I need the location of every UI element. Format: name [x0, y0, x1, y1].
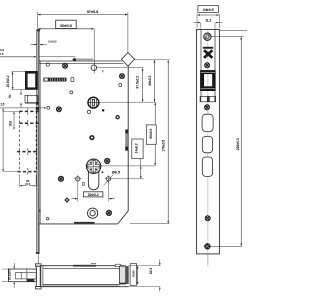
centerline of plate	[207, 30, 209, 262]
svg-text:14±0.2: 14±0.2	[135, 143, 139, 153]
dimension 19.65 boxed	[130, 264, 138, 286]
lock case plan view	[40, 263, 129, 286]
dark bar above latch	[203, 47, 213, 49]
small circle left	[70, 91, 73, 94]
hole extension line	[112, 178, 144, 180]
svg-text:-0.3: -0.3	[0, 52, 4, 56]
svg-text:20.3: 20.3	[149, 268, 153, 274]
screw dark right top	[119, 73, 125, 79]
diamond adjusting element at case corner	[121, 53, 134, 66]
dimension 26	[19, 175, 36, 187]
svg-text:6±: 6±	[8, 94, 12, 98]
dimension 11.2	[194, 18, 223, 28]
auxiliary latch front	[200, 96, 216, 101]
centerline below plate	[207, 254, 209, 266]
svg-text:60±0.5: 60±0.5	[60, 23, 72, 28]
screw dark lower left	[58, 176, 64, 182]
slot 2	[202, 136, 212, 152]
dark bar on case right edge	[125, 130, 128, 150]
screw 2	[204, 62, 210, 68]
screw 3	[204, 104, 210, 110]
svg-text:176±0.5: 176±0.5	[161, 140, 165, 152]
rounded square left	[71, 78, 74, 82]
hub extension line	[99, 101, 155, 103]
dimension 226±0.3	[236, 37, 241, 246]
faceplate (main side view)	[36, 30, 40, 254]
slot 1	[202, 114, 213, 131]
left vertical dimension	[2, 108, 4, 171]
dimension 10.2±0.5	[2, 263, 14, 288]
dimension 2.5±0.5 faceplate thickness	[31, 40, 58, 45]
faceplate front outline	[197, 29, 220, 254]
small circle below hub	[87, 110, 90, 113]
bottom mounting screw	[204, 243, 210, 249]
latch bolt front dark frame	[200, 70, 216, 91]
dimension 20±0.3 at left edge	[0, 48, 76, 57]
latch bolt head front (bowtie)	[204, 50, 212, 58]
dimension 60±0.3 boxed	[146, 103, 156, 166]
svg-text:19.65: 19.65	[131, 270, 135, 277]
extension line at plate top right	[220, 30, 247, 32]
svg-text:24±0.5: 24±0.5	[203, 8, 214, 12]
dimension 97±0.8	[37, 9, 128, 53]
screw dark mid left	[56, 106, 62, 112]
hidden mounting plate (dashed)	[17, 109, 40, 175]
label Ø6.5 with leader	[104, 170, 121, 186]
tick mark above hub	[102, 70, 104, 72]
small diamond	[65, 198, 69, 202]
dimension 20.3	[129, 260, 161, 292]
svg-text:97±0.8: 97±0.8	[87, 9, 99, 14]
dimension 20.6±0.2 latch height	[6, 72, 26, 90]
crosshair hole right Ø6.5	[105, 175, 113, 183]
circle top middle	[91, 65, 97, 71]
latch bolt plan view	[9, 269, 37, 282]
svg-text:11.2: 11.2	[205, 18, 211, 22]
svg-text:19.8: 19.8	[9, 121, 13, 127]
circle near faceplate	[47, 106, 50, 109]
dark dot	[102, 109, 105, 112]
svg-text:20.6±0.2: 20.6±0.2	[6, 75, 10, 87]
small circle bottom	[47, 218, 49, 220]
slot 3	[202, 157, 212, 176]
svg-text:37.5±0.2: 37.5±0.2	[135, 76, 139, 89]
small square	[83, 183, 85, 186]
svg-text:2.5±0.5: 2.5±0.5	[48, 40, 57, 44]
deadlocking pin bar	[43, 78, 66, 82]
dark dot near cylinder	[102, 171, 104, 173]
dimension 19.8	[9, 112, 14, 130]
latch bolt (main view)	[25, 71, 38, 90]
ext line case top	[135, 59, 170, 61]
svg-text:60±0.3: 60±0.3	[149, 129, 153, 139]
faceplate cross-section	[35, 264, 41, 289]
label 1.5 with leader	[0, 102, 46, 108]
dimension 176±0.5	[161, 60, 168, 223]
leader to 226 dim bottom	[211, 245, 242, 247]
svg-text:Ø6.5: Ø6.5	[112, 170, 121, 175]
screw dark bottom	[106, 210, 112, 216]
mid plate screw	[205, 215, 211, 221]
rounded square right	[119, 84, 122, 87]
screw dark top	[62, 63, 68, 69]
ring double circle	[88, 208, 98, 218]
circle center	[90, 136, 94, 140]
dimension 32±0.2 boxed	[72, 182, 115, 202]
dimension 14±0.2 boxed	[132, 139, 143, 178]
cylinder extension line	[101, 165, 156, 167]
screw dark near cylinder	[104, 158, 110, 164]
svg-text:226±0.3: 226±0.3	[236, 138, 240, 150]
extension lines for dashed plate	[3, 110, 20, 112]
centerline joining views	[37, 254, 39, 264]
svg-text:46±0.3: 46±0.3	[148, 76, 152, 86]
svg-text:1.5: 1.5	[0, 102, 4, 106]
case bottom extension line	[130, 223, 170, 225]
euro profile cylinder	[86, 159, 100, 190]
dark dot right	[116, 116, 119, 119]
dimension 37.5±0.2	[135, 68, 142, 102]
dimension 24±0.5 boxed	[197, 6, 219, 28]
auxiliary latch (main view)	[25, 95, 39, 110]
svg-text:10.2±0.5: 10.2±0.5	[7, 268, 11, 280]
svg-text:32±0.2: 32±0.2	[88, 193, 99, 197]
dimension 6 aux bolt	[8, 90, 21, 108]
dimension 46±0.3	[148, 60, 155, 102]
dimension 60±0.5 boxed	[38, 20, 94, 73]
lock case outline	[39, 61, 128, 224]
circle small top left	[46, 63, 49, 66]
top mounting screw	[204, 33, 212, 41]
hatched spring bar on case top	[73, 58, 94, 61]
leader to 226 dim top	[211, 36, 244, 38]
crosshair hole left	[74, 175, 82, 183]
spindle hub follower	[88, 97, 99, 108]
ext line circle level	[97, 67, 144, 69]
svg-text:±0.5: ±0.5	[25, 182, 31, 186]
